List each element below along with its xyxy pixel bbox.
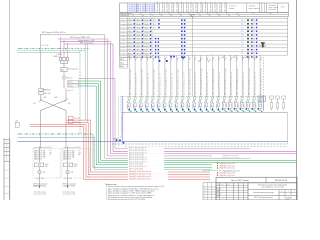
svg-text:ХХ: ХХ <box>208 196 210 198</box>
svg-text:2.5: 2.5 <box>253 46 255 48</box>
right drop wire <box>286 112 288 143</box>
svg-text:Кол.уч: Кол.уч <box>220 184 224 186</box>
svg-text:Согл: Согл <box>204 190 207 192</box>
svg-text:Щит авар.осв: Щит авар.осв <box>176 2 178 12</box>
feedback boxes right of cluster <box>68 80 79 87</box>
table lower label cells <box>120 57 128 68</box>
svg-text:ВВГ: ВВГ <box>199 15 202 17</box>
blue connector glyphs at bus left end <box>114 139 125 144</box>
wire bundle line x=110.5 <box>111 42 297 154</box>
svg-text:Отработано от зоны 12: Отработано от зоны 12 <box>222 158 239 160</box>
svg-text:ИРЬ.302.16-ЭР: ИРЬ.302.16-ЭР <box>275 180 288 182</box>
blue bus line <box>18 141 288 143</box>
svg-text:Щит авар.осв: Щит авар.осв <box>186 2 188 12</box>
svg-text:РУБ-100: РУБ-100 <box>67 77 73 79</box>
svg-text:2.5: 2.5 <box>253 53 255 55</box>
svg-text:2 рх.1: 2 рх.1 <box>64 178 68 180</box>
wire bundle line x=107.5 <box>108 39 213 156</box>
check marks near wires <box>198 56 248 62</box>
wire bundle line x=104.8 <box>105 35 250 158</box>
svg-text:3х2.5: 3х2.5 <box>140 13 143 15</box>
svg-text:ВВГнг-LS 5х2.5 0.4кВ гр.11 «-т: ВВГнг-LS 5х2.5 0.4кВ гр.11 «-т» щит <box>189 68 191 95</box>
svg-text:1.5: 1.5 <box>241 24 243 26</box>
order strip above title block <box>216 177 297 183</box>
svg-text:ХХ: ХХ <box>212 196 214 198</box>
component row bottom rail <box>121 111 287 113</box>
svg-text:ВВГнг-LS 5х2.5 0.4кВ гр.23 «-т: ВВГнг-LS 5х2.5 0.4кВ гр.23 «-т» щит <box>261 68 263 95</box>
svg-text:Обогрев: Обогрев <box>249 5 256 7</box>
PE riser wire blue <box>120 96 123 141</box>
electricity meter <box>61 64 78 72</box>
gray dashed line mid <box>125 146 288 148</box>
svg-text:на отметке +2.000: на отметке +2.000 <box>34 194 47 196</box>
cluster B drop wire <box>67 147 69 189</box>
svg-text:3х2.5: 3х2.5 <box>168 13 171 15</box>
PE green dashed riser <box>79 51 81 134</box>
svg-text:гр.2: гр.2 <box>78 150 81 152</box>
svg-text:ХХ: ХХ <box>212 188 214 190</box>
blue tap marks on wires <box>159 56 184 62</box>
svg-text:водост. воронок: водост. воронок <box>249 8 260 10</box>
gray N bus upper <box>18 52 81 54</box>
svg-text:Разраб: Разраб <box>217 189 222 191</box>
svg-text:2.5: 2.5 <box>253 38 255 40</box>
wire bundle line x=86.0 <box>86 125 210 178</box>
svg-text:ВВГнг-LS 5х2.5 0.4кВ гр.5 «-т»: ВВГнг-LS 5х2.5 0.4кВ гр.5 «-т» щит <box>154 69 156 95</box>
svg-text:5х10: 5х10 <box>269 13 272 15</box>
wire bundle line x=113.0 <box>113 44 296 151</box>
svg-text:2.5: 2.5 <box>253 31 255 33</box>
svg-text:ВРУ-3н (7П) 5х10(б) «-т»: ВРУ-3н (7П) 5х10(б) «-т» <box>129 148 147 150</box>
transformer switch symbol <box>63 72 73 89</box>
svg-text:ЩС-2: ЩС-2 <box>120 63 124 65</box>
svg-text:ВВГнг-LS 5х2.5 0.4кВ гр.21 «-т: ВВГнг-LS 5х2.5 0.4кВ гр.21 «-т» щит <box>249 68 251 95</box>
svg-text:3х2.5: 3х2.5 <box>159 13 162 15</box>
middle cluster side breakers <box>39 89 51 96</box>
svg-text:N25: N25 <box>153 28 156 30</box>
svg-text:2.5: 2.5 <box>253 42 255 44</box>
terminal table header band <box>120 2 289 18</box>
svg-text:на отметке +2.000: на отметке +2.000 <box>63 194 76 196</box>
svg-text:Н.контр: Н.контр <box>217 194 222 196</box>
svg-text:ВРУ-3 ввод резерв: ВРУ-3 ввод резерв <box>80 42 94 44</box>
red control relay boxes <box>30 116 91 126</box>
svg-text:3х2.5: 3х2.5 <box>130 13 133 15</box>
svg-text:ХХ: ХХ <box>212 185 214 187</box>
svg-text:ВВГ: ВВГ <box>132 15 135 17</box>
svg-text:Заказ № "ЩУ" (Заказч.): Заказ № "ЩУ" (Заказч.) <box>231 179 250 182</box>
svg-text:[ВРУ-3С (вводная)]: [ВРУ-3С (вводная)] <box>63 184 77 186</box>
green dashed note row <box>203 170 240 173</box>
svg-text:[ВРУ-3С (вводная)]: [ВРУ-3С (вводная)] <box>34 184 48 186</box>
svg-text:18 16 14 12: 18 16 14 12 <box>146 11 155 13</box>
svg-text:3х2.5: 3х2.5 <box>149 13 152 15</box>
svg-text:1.5: 1.5 <box>241 35 243 37</box>
svg-text:Электротехнические решения: Электротехнические решения <box>253 192 274 194</box>
terminal table row labels and marks <box>120 19 257 59</box>
svg-text:ХХ: ХХ <box>208 185 210 187</box>
left page edge line <box>9 0 11 200</box>
svg-text:3х2.5: 3х2.5 <box>216 13 219 15</box>
svg-text:ВВГ: ВВГ <box>161 15 164 17</box>
small left box ЩАО <box>15 120 19 127</box>
main breakers QF1-QF3 <box>54 53 69 64</box>
right side wire destination notes <box>217 155 239 177</box>
svg-text:18 16 14 12: 18 16 14 12 <box>129 11 138 13</box>
wire bundle line x=98.3 <box>98 84 296 163</box>
ABP cross transfer switch <box>33 89 71 149</box>
input taps to main breakers <box>41 34 68 89</box>
svg-text:3х2.5: 3х2.5 <box>236 13 239 15</box>
svg-text:Р: Р <box>281 191 282 193</box>
svg-text:ВВГнг-LS 5х2.5 0.4кВ гр.1 «-т»: ВВГнг-LS 5х2.5 0.4кВ гр.1 «-т» щит <box>130 69 132 95</box>
cluster A drop wire <box>39 147 41 189</box>
svg-text:Согл: Согл <box>204 196 207 198</box>
distribution panel cluster A <box>33 149 61 179</box>
notes heading <box>105 184 118 186</box>
svg-text:2.5: 2.5 <box>253 20 255 22</box>
svg-text:ВВГнг-LS 5х2.5 0.4кВ гр.3 «-т»: ВВГнг-LS 5х2.5 0.4кВ гр.3 «-т» щит <box>142 69 144 95</box>
svg-text:ХХ: ХХ <box>212 198 214 200</box>
svg-text:ХХ: ХХ <box>208 193 210 195</box>
vertical feeder wires from table <box>129 55 263 96</box>
wire bundle line x=96.2 <box>96 86 212 165</box>
svg-text:1.5: 1.5 <box>241 46 243 48</box>
svg-text:1.5: 1.5 <box>241 42 243 44</box>
svg-text:Щит авар.осв: Щит авар.осв <box>215 2 217 12</box>
svg-text:ХХ: ХХ <box>208 198 210 200</box>
svg-text:Согл: Согл <box>204 193 207 195</box>
svg-text:ЩС-1: ЩС-1 <box>120 59 124 61</box>
extra small text above cluster A <box>34 146 81 149</box>
svg-text:3х2.5: 3х2.5 <box>197 13 200 15</box>
svg-text:ВВГ: ВВГ <box>151 15 154 17</box>
right side motor box and fuse elements <box>258 96 285 111</box>
green dashed PE bus upper <box>18 48 91 51</box>
svg-text:N25: N25 <box>153 24 156 26</box>
svg-text:Щит авар.осв: Щит авар.осв <box>181 2 183 12</box>
svg-text:Сечение жил: Сечение жил <box>120 15 129 17</box>
dashed enclosure box of switchboard <box>121 57 264 112</box>
svg-text:3х2.5: 3х2.5 <box>207 13 210 15</box>
terminal table rows grid <box>120 17 288 58</box>
svg-text:18 16 14 12: 18 16 14 12 <box>137 11 146 13</box>
svg-text:QS2: QS2 <box>68 103 71 105</box>
svg-text:ВВГнг-LS 5х2.5 0.4кВ гр.13 «-т: ВВГнг-LS 5х2.5 0.4кВ гр.13 «-т» щит <box>201 68 203 95</box>
svg-text:Щит авар.осв: Щит авар.осв <box>224 2 226 12</box>
page frame right border <box>296 0 298 200</box>
svg-text:2 рх.1: 2 рх.1 <box>36 178 40 180</box>
riser wire <box>192 18 194 96</box>
incoming feeder nest top <box>41 31 114 44</box>
left margin stamp strip <box>4 138 10 200</box>
label under ЩО box <box>33 185 38 188</box>
svg-text:Изм: Изм <box>217 184 219 186</box>
svg-text:ВВГнг-LS 5х2.5 0.4кВ гр.17 «-т: ВВГнг-LS 5х2.5 0.4кВ гр.17 «-т» щит <box>225 68 227 95</box>
svg-text:ХХ: ХХ <box>208 190 210 192</box>
teal corner stubs to upper cluster <box>79 79 116 87</box>
wire bundle line x=115.0 <box>115 79 250 149</box>
svg-text:ВВГ: ВВГ <box>209 15 212 17</box>
svg-text:1.5: 1.5 <box>241 49 243 51</box>
svg-text:Лист: Лист <box>227 184 230 186</box>
svg-text:ВРУ-3 ввод №1 ВВГнг 4х35 с.т.: ВРУ-3 ввод №1 ВВГнг 4х35 с.т. <box>42 31 67 34</box>
svg-text:ВВГнг-LS 5х2.5 0.4кВ гр.9 «-т»: ВВГнг-LS 5х2.5 0.4кВ гр.9 «-т» щит <box>177 69 179 95</box>
svg-text:ХХ: ХХ <box>208 188 210 190</box>
svg-text:Отработано от зоны 12: Отработано от зоны 12 <box>222 155 239 157</box>
svg-text:Согл: Согл <box>204 188 207 190</box>
wire bundle line x=94.6 <box>95 138 212 170</box>
svg-text:2.5: 2.5 <box>253 27 255 29</box>
svg-text:ВВГ: ВВГ <box>238 15 241 17</box>
svg-text:Щит авар.осв: Щит авар.осв <box>162 2 164 12</box>
svg-text:Щит авар.осв: Щит авар.осв <box>191 2 193 12</box>
svg-text:Согл: Согл <box>204 198 207 200</box>
svg-text:ВРУ-3н (7П) 5х6(б): ВРУ-3н (7П) 5х6(б) <box>129 168 143 170</box>
svg-text:отопления: отопления <box>269 9 276 11</box>
svg-text:Щит авар.осв: Щит авар.осв <box>167 2 169 12</box>
svg-text:ХХ: ХХ <box>212 190 214 192</box>
node marker triangle on riser <box>191 15 195 18</box>
svg-text:ВВГнг-LS 5х2.5 0.4кВ гр.19 «-т: ВВГнг-LS 5х2.5 0.4кВ гр.19 «-т» щит <box>237 68 239 95</box>
wire bundle line x=93.0 <box>93 134 212 167</box>
svg-text:ВВГ: ВВГ <box>228 15 231 17</box>
svg-text:QS1: QS1 <box>33 103 36 105</box>
svg-text:ЩУВ-2: ЩУВ-2 <box>68 85 73 87</box>
title block main stamp <box>216 183 297 201</box>
svg-text:ВВГнг-LS 5х2.5 0.4кВ гр.7 «-т»: ВВГнг-LS 5х2.5 0.4кВ гр.7 «-т» щит <box>166 69 168 95</box>
breaker/lamp symbols on each wire <box>127 96 262 112</box>
approval grid left of stamp <box>203 183 216 201</box>
wire bundle line x=90.5 <box>91 120 211 172</box>
svg-text:пункт с узлом: пункт с узлом <box>269 7 279 9</box>
green dashed bus line mid <box>112 143 287 145</box>
svg-text:ВВГ: ВВГ <box>218 15 221 17</box>
cluster A bottom labels <box>34 177 48 196</box>
svg-text:1Р: 1Р <box>78 155 80 157</box>
svg-text:резерв ввода с.т. 4х35: резерв ввода с.т. 4х35 <box>78 40 95 42</box>
N risers gray pair <box>85 44 87 122</box>
svg-text:гр.1: гр.1 <box>49 150 52 152</box>
svg-text:1Р: 1Р <box>49 155 51 157</box>
green dashed PE bus lower <box>18 133 94 134</box>
svg-text:7. Все работы вести согласно П: 7. Все работы вести согласно ПУЭ и СП 76… <box>106 199 145 200</box>
upper cluster annotations <box>42 44 74 92</box>
wire bundle line x=88.2 <box>88 122 210 174</box>
distribution panel cluster B <box>62 149 90 179</box>
svg-text:Щит авар.осв: Щит авар.осв <box>205 2 207 12</box>
svg-text:1.5: 1.5 <box>241 27 243 29</box>
svg-text:1.5: 1.5 <box>241 20 243 22</box>
svg-text:1.5: 1.5 <box>241 31 243 33</box>
labels on fan lines <box>128 147 168 181</box>
svg-text:ВВГ: ВВГ <box>170 15 173 17</box>
dashed edge continuation <box>118 96 120 147</box>
svg-text:Щит авар.осв: Щит авар.осв <box>196 2 198 12</box>
svg-text:2.5: 2.5 <box>253 49 255 51</box>
svg-text:N25: N25 <box>153 20 156 22</box>
svg-text:ВВГнг-LS 5х2.5 0.4кВ гр.15 «-т: ВВГнг-LS 5х2.5 0.4кВ гр.15 «-т» щит <box>213 68 215 95</box>
svg-text:Согл: Согл <box>204 185 207 187</box>
svg-text:5х6: 5х6 <box>252 13 254 15</box>
svg-text:2.5: 2.5 <box>253 35 255 37</box>
svg-text:Wh: Wh <box>62 69 65 71</box>
gray N bus lower <box>18 137 95 139</box>
dark junction icon right <box>259 42 266 47</box>
svg-text:ГИП: ГИП <box>217 196 220 198</box>
svg-text:1.5: 1.5 <box>241 53 243 55</box>
svg-text:ВВГ: ВВГ <box>180 15 183 17</box>
svg-text:ЩУВ-1: ЩУВ-1 <box>68 82 73 84</box>
svg-text:3х2.5: 3х2.5 <box>226 13 229 15</box>
svg-text:секция: секция <box>229 8 234 10</box>
svg-text:2.5: 2.5 <box>253 24 255 26</box>
svg-text:Щит авар.осв: Щит авар.осв <box>157 2 159 12</box>
svg-text:Щит авар.осв: Щит авар.осв <box>220 2 222 12</box>
wire bundle line x=100.5 <box>101 81 297 160</box>
svg-text:проект»: проект» <box>286 199 291 200</box>
svg-text:Щит авар.осв: Щит авар.осв <box>210 2 212 12</box>
cluster B bottom labels <box>63 177 77 196</box>
wire bundle line x=83.8 <box>84 127 210 180</box>
svg-text:Щит авар.осв: Щит авар.осв <box>172 2 174 12</box>
svg-text:ХХ: ХХ <box>212 193 214 195</box>
svg-text:3х2.5: 3х2.5 <box>178 13 181 15</box>
svg-text:Тепл: Тепл <box>281 7 285 9</box>
svg-text:1.5: 1.5 <box>241 38 243 40</box>
svg-text:Щит авар.осв: Щит авар.осв <box>200 2 202 12</box>
